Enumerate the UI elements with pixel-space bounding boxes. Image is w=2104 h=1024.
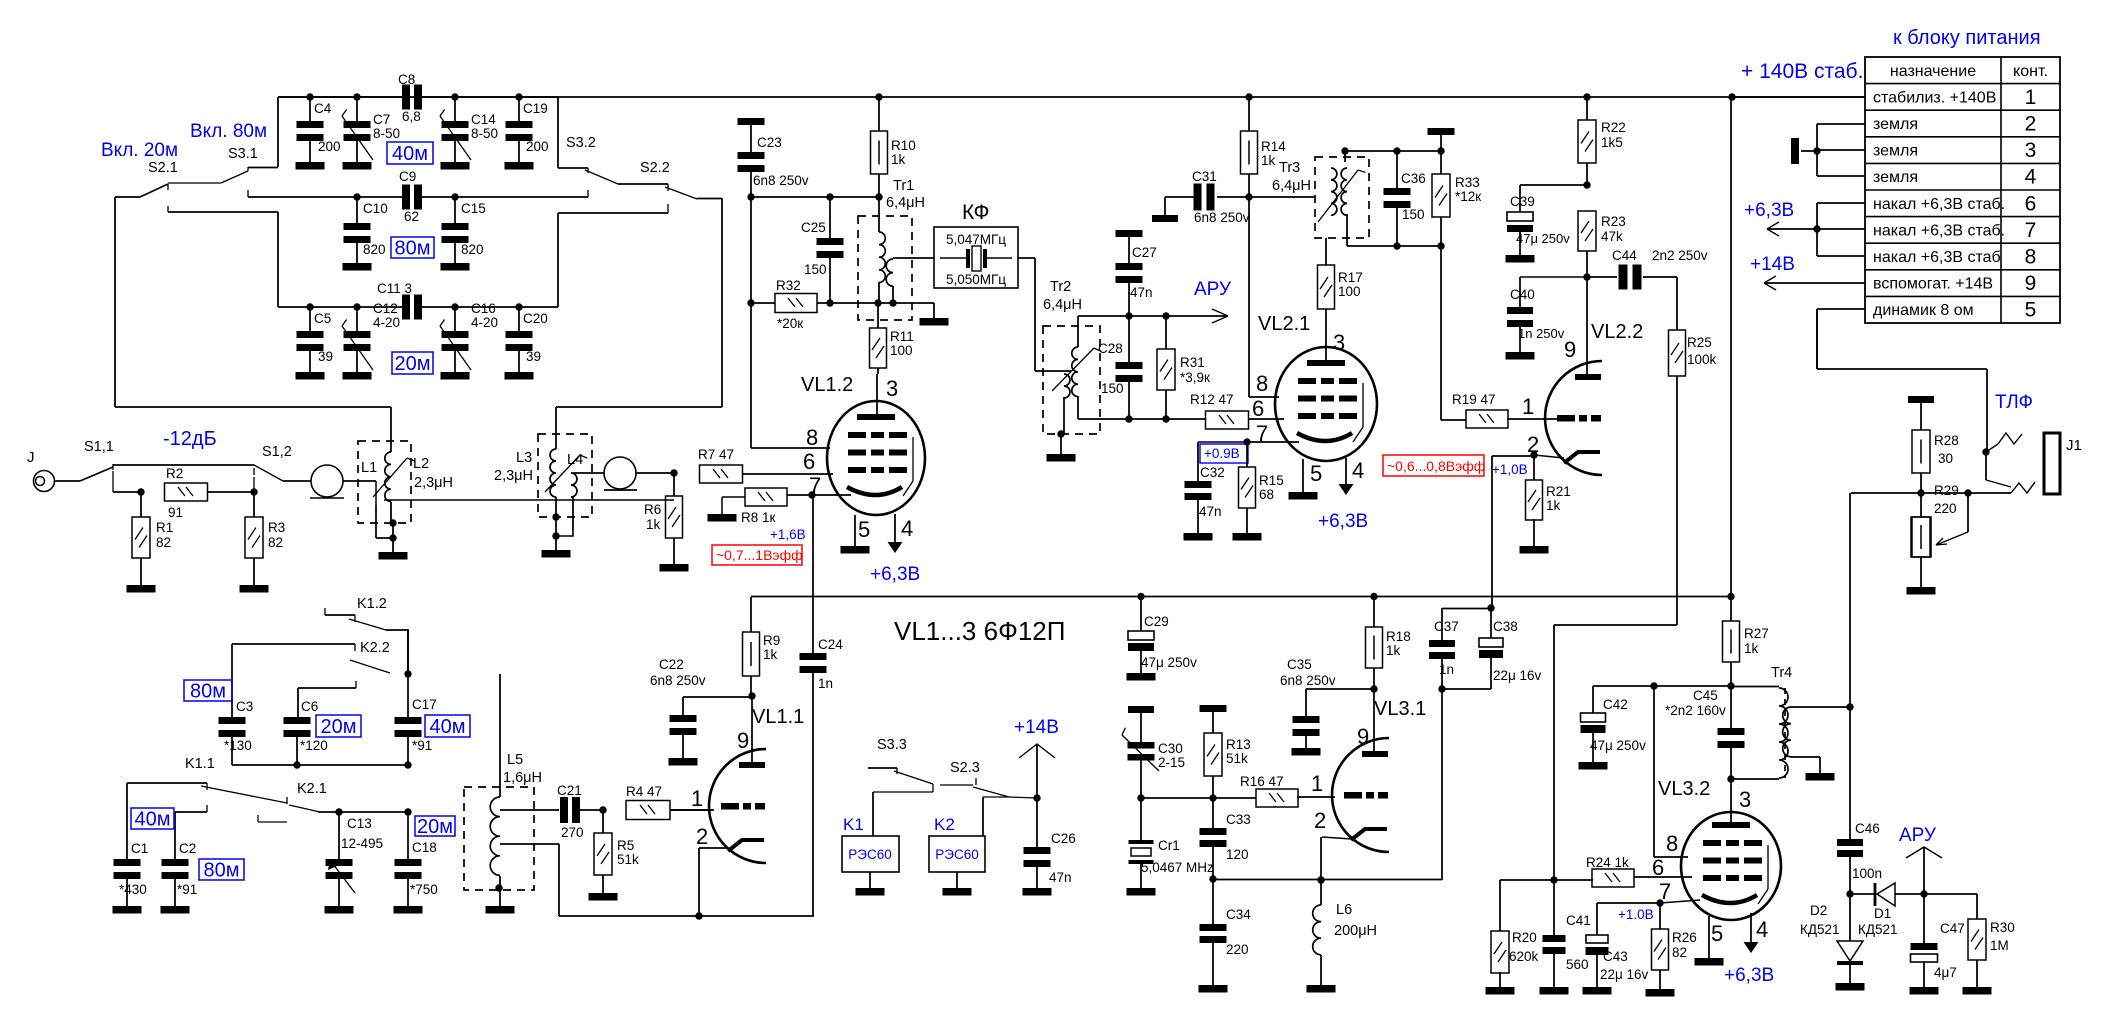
svg-text:L4: L4 — [567, 452, 583, 468]
svg-text:4: 4 — [1756, 917, 1768, 942]
svg-text:R11: R11 — [890, 329, 914, 344]
svg-text:РЭС60: РЭС60 — [848, 847, 891, 862]
svg-text:C43: C43 — [1603, 949, 1628, 964]
svg-text:9: 9 — [1357, 724, 1369, 749]
svg-text:*3,9к: *3,9к — [1180, 370, 1210, 385]
svg-text:R3: R3 — [268, 520, 285, 535]
svg-text:8-50: 8-50 — [471, 126, 498, 141]
svg-text:РЭС60: РЭС60 — [935, 847, 978, 862]
svg-text:C47: C47 — [1940, 921, 1965, 936]
svg-text:4: 4 — [2025, 166, 2037, 189]
svg-text:820: 820 — [461, 242, 484, 257]
svg-text:Вкл. 80м: Вкл. 80м — [190, 121, 267, 142]
svg-text:R32: R32 — [776, 278, 801, 293]
svg-text:5,0467 MHz: 5,0467 MHz — [1141, 860, 1214, 875]
svg-text:150: 150 — [1402, 207, 1425, 222]
svg-text:Tr3: Tr3 — [1279, 160, 1300, 176]
svg-text:накал +6,3В стаб: накал +6,3В стаб — [1873, 249, 2001, 266]
svg-text:R13: R13 — [1226, 737, 1251, 752]
svg-text:S3.1: S3.1 — [228, 146, 258, 162]
svg-text:*750: *750 — [410, 882, 438, 897]
svg-text:2: 2 — [1314, 808, 1326, 833]
svg-text:R30: R30 — [1990, 920, 2015, 935]
svg-text:АРУ: АРУ — [1194, 279, 1232, 300]
svg-text:1: 1 — [2025, 86, 2037, 109]
svg-text:47μ 250v: 47μ 250v — [1590, 738, 1646, 753]
svg-text:C12: C12 — [373, 301, 398, 316]
svg-text:8: 8 — [1666, 831, 1678, 856]
svg-text:8: 8 — [2025, 246, 2037, 269]
svg-text:6: 6 — [803, 449, 815, 474]
svg-text:+6,3В: +6,3В — [1744, 200, 1794, 221]
svg-text:200: 200 — [318, 139, 341, 154]
svg-text:150: 150 — [1101, 381, 1124, 396]
svg-text:стабилиз. +140В: стабилиз. +140В — [1873, 89, 1996, 106]
svg-text:220: 220 — [1226, 942, 1249, 957]
svg-text:R8 1к: R8 1к — [741, 510, 776, 525]
svg-text:C5: C5 — [314, 311, 331, 326]
svg-text:9: 9 — [1564, 337, 1576, 362]
svg-text:VL2.1: VL2.1 — [1258, 313, 1310, 335]
svg-text:40м: 40м — [135, 809, 171, 831]
svg-text:1M: 1M — [1990, 938, 2009, 953]
svg-text:C44: C44 — [1612, 248, 1637, 263]
svg-text:39: 39 — [526, 349, 541, 364]
svg-text:6n8 250v: 6n8 250v — [1194, 210, 1250, 225]
svg-text:+1.0В: +1.0В — [1618, 907, 1654, 922]
svg-text:R5: R5 — [617, 838, 634, 853]
svg-text:1k: 1k — [1261, 153, 1276, 168]
svg-text:КД521: КД521 — [1800, 922, 1840, 937]
svg-text:82: 82 — [268, 535, 283, 550]
svg-text:C18: C18 — [412, 840, 437, 855]
svg-text:АРУ: АРУ — [1899, 825, 1937, 846]
svg-text:ТЛФ: ТЛФ — [1995, 392, 2033, 413]
svg-text:J: J — [27, 449, 35, 466]
svg-text:47μ 250v: 47μ 250v — [1141, 655, 1197, 670]
svg-text:вспомогат. +14В: вспомогат. +14В — [1873, 276, 1993, 293]
svg-text:VL1.2: VL1.2 — [801, 374, 853, 396]
svg-text:C46: C46 — [1855, 821, 1880, 836]
svg-text:C4: C4 — [314, 101, 332, 116]
svg-text:назначение: назначение — [1890, 63, 1976, 80]
svg-text:8: 8 — [1256, 371, 1268, 396]
svg-text:S3.3: S3.3 — [877, 737, 907, 753]
svg-text:R26: R26 — [1672, 930, 1697, 945]
svg-text:8-50: 8-50 — [373, 126, 400, 141]
svg-text:4-20: 4-20 — [471, 315, 498, 330]
svg-text:VL3.1: VL3.1 — [1374, 698, 1426, 720]
svg-text:R1: R1 — [156, 520, 173, 535]
svg-text:*20к: *20к — [777, 316, 803, 331]
svg-text:2: 2 — [696, 824, 708, 849]
svg-text:Tr1: Tr1 — [893, 178, 914, 194]
svg-text:2-15: 2-15 — [1158, 755, 1185, 770]
svg-text:C28: C28 — [1098, 341, 1123, 356]
svg-text:КД521: КД521 — [1858, 922, 1898, 937]
svg-text:C11 3: C11 3 — [377, 281, 412, 296]
svg-text:S2.3: S2.3 — [950, 760, 980, 776]
svg-text:R21: R21 — [1546, 484, 1571, 499]
svg-text:1n: 1n — [1439, 662, 1454, 677]
svg-text:C14: C14 — [471, 112, 496, 127]
svg-text:к блоку питания: к блоку питания — [1893, 27, 2041, 49]
svg-text:L5: L5 — [507, 752, 523, 768]
svg-text:C45: C45 — [1693, 688, 1718, 703]
svg-text:C29: C29 — [1144, 614, 1169, 629]
svg-text:2: 2 — [2025, 113, 2037, 136]
svg-text:C3: C3 — [236, 699, 253, 714]
svg-text:82: 82 — [156, 535, 171, 550]
svg-text:2,3μН: 2,3μН — [494, 468, 533, 484]
svg-text:40м: 40м — [430, 716, 466, 738]
svg-text:62: 62 — [404, 209, 419, 224]
svg-text:S2.1: S2.1 — [148, 160, 178, 176]
svg-text:D1: D1 — [1874, 906, 1891, 921]
svg-text:+14В: +14В — [1014, 717, 1059, 738]
svg-text:*91: *91 — [177, 882, 197, 897]
svg-text:5: 5 — [858, 517, 870, 542]
svg-text:C34: C34 — [1226, 907, 1251, 922]
svg-text:C21: C21 — [557, 783, 582, 798]
svg-text:R23: R23 — [1601, 214, 1626, 229]
svg-text:Вкл. 20м: Вкл. 20м — [101, 140, 178, 161]
svg-text:C20: C20 — [523, 311, 548, 326]
svg-text:5,050МГц: 5,050МГц — [946, 272, 1006, 287]
svg-text:5: 5 — [1310, 461, 1322, 486]
svg-text:накал +6,3В стаб.: накал +6,3В стаб. — [1873, 222, 2005, 239]
svg-text:+14В: +14В — [1750, 254, 1795, 275]
svg-text:5: 5 — [1711, 921, 1723, 946]
svg-text:C38: C38 — [1493, 619, 1518, 634]
svg-text:C19: C19 — [523, 101, 548, 116]
svg-text:1: 1 — [691, 786, 703, 811]
svg-text:R14: R14 — [1261, 139, 1286, 154]
svg-text:K2.2: K2.2 — [360, 640, 390, 656]
svg-text:C25: C25 — [801, 220, 826, 235]
svg-text:земля: земля — [1873, 116, 1918, 133]
svg-text:22μ 16v: 22μ 16v — [1493, 668, 1542, 683]
svg-text:VL3.2: VL3.2 — [1658, 778, 1710, 800]
svg-text:C2: C2 — [179, 841, 196, 856]
svg-text:6n8 250v: 6n8 250v — [650, 673, 706, 688]
svg-text:L6: L6 — [1336, 902, 1352, 918]
svg-text:6,4μН: 6,4μН — [886, 195, 925, 211]
svg-text:C24: C24 — [818, 637, 843, 652]
svg-text:620k: 620k — [1509, 949, 1539, 964]
svg-text:270: 270 — [561, 825, 584, 840]
svg-text:C26: C26 — [1051, 831, 1076, 846]
svg-text:K2: K2 — [934, 815, 955, 834]
svg-text:C6: C6 — [301, 699, 318, 714]
svg-text:*12к: *12к — [1455, 189, 1481, 204]
svg-text:200μН: 200μН — [1334, 923, 1377, 939]
svg-text:C41: C41 — [1566, 913, 1591, 928]
svg-text:4: 4 — [901, 516, 913, 541]
svg-text:C31: C31 — [1192, 169, 1217, 184]
svg-text:220: 220 — [1934, 501, 1957, 516]
svg-text:R17: R17 — [1338, 270, 1363, 285]
svg-text:+6,3В: +6,3В — [870, 564, 920, 585]
svg-text:J1: J1 — [2066, 437, 2082, 454]
svg-text:2,3μН: 2,3μН — [414, 475, 453, 491]
svg-text:3: 3 — [886, 376, 898, 401]
svg-text:*2n2 160v: *2n2 160v — [1665, 703, 1726, 718]
svg-text:20м: 20м — [395, 353, 431, 375]
svg-text:100k: 100k — [1687, 352, 1717, 367]
svg-text:9: 9 — [2025, 272, 2037, 295]
svg-text:C30: C30 — [1158, 741, 1183, 756]
svg-text:R29: R29 — [1934, 483, 1959, 498]
svg-text:20м: 20м — [417, 816, 453, 838]
svg-text:C8: C8 — [398, 72, 415, 87]
svg-text:C27: C27 — [1132, 245, 1157, 260]
svg-text:91: 91 — [168, 505, 183, 520]
svg-text:4μ7: 4μ7 — [1934, 965, 1957, 980]
svg-text:C16: C16 — [471, 301, 496, 316]
svg-text:R7 47: R7 47 — [698, 447, 734, 462]
svg-text:C37: C37 — [1434, 619, 1459, 634]
svg-text:*430: *430 — [119, 882, 147, 897]
svg-text:K2.1: K2.1 — [297, 781, 327, 797]
svg-text:+1,6В: +1,6В — [770, 527, 806, 542]
svg-text:C33: C33 — [1226, 812, 1251, 827]
svg-text:Cr1: Cr1 — [1158, 838, 1180, 853]
svg-text:C39: C39 — [1510, 194, 1535, 209]
svg-text:*91: *91 — [412, 738, 432, 753]
svg-text:6,4μН: 6,4μН — [1272, 178, 1311, 194]
svg-text:820: 820 — [363, 242, 386, 257]
svg-text:1k5: 1k5 — [1601, 135, 1623, 150]
svg-text:47k: 47k — [1601, 229, 1623, 244]
svg-text:C15: C15 — [461, 201, 486, 216]
svg-text:22μ 16v: 22μ 16v — [1600, 967, 1649, 982]
svg-text:47n: 47n — [1199, 504, 1222, 519]
svg-text:динамик 8 ом: динамик 8 ом — [1873, 302, 1974, 319]
svg-text:51k: 51k — [1226, 751, 1248, 766]
svg-text:R15: R15 — [1259, 473, 1284, 488]
svg-text:1k: 1k — [891, 152, 906, 167]
svg-text:C22: C22 — [659, 657, 684, 672]
svg-text:R9: R9 — [763, 633, 780, 648]
svg-text:R2: R2 — [166, 466, 183, 481]
svg-text:3: 3 — [1739, 787, 1751, 812]
svg-text:6: 6 — [2025, 192, 2037, 215]
svg-text:1k: 1k — [1386, 643, 1401, 658]
svg-text:S2.2: S2.2 — [640, 160, 670, 176]
svg-text:1k: 1k — [1744, 641, 1759, 656]
svg-text:40м: 40м — [392, 143, 428, 165]
svg-text:K1: K1 — [843, 815, 864, 834]
svg-text:6n8 250v: 6n8 250v — [753, 173, 809, 188]
svg-text:1k: 1k — [1546, 498, 1561, 513]
svg-text:+1,0В: +1,0В — [1492, 462, 1528, 477]
svg-text:R12 47: R12 47 — [1190, 392, 1234, 407]
svg-text:82: 82 — [1672, 945, 1687, 960]
svg-text:1: 1 — [1311, 771, 1323, 796]
svg-text:D2: D2 — [1810, 903, 1827, 918]
svg-text:80м: 80м — [204, 860, 240, 882]
svg-text:1k: 1k — [763, 647, 778, 662]
svg-text:68: 68 — [1259, 487, 1274, 502]
svg-text:R33: R33 — [1455, 175, 1480, 190]
svg-text:R18: R18 — [1386, 629, 1411, 644]
svg-text:1: 1 — [1522, 394, 1534, 419]
svg-text:150: 150 — [804, 262, 827, 277]
svg-text:S1,2: S1,2 — [262, 444, 292, 460]
svg-text:1n 250v: 1n 250v — [1518, 326, 1565, 341]
svg-text:C36: C36 — [1401, 171, 1426, 186]
svg-text:1,6μН: 1,6μН — [503, 770, 542, 786]
svg-text:конт.: конт. — [2013, 63, 2048, 80]
svg-text:C17: C17 — [412, 697, 437, 712]
svg-text:6: 6 — [1252, 396, 1264, 421]
svg-text:Tr2: Tr2 — [1050, 279, 1071, 295]
svg-text:4-20: 4-20 — [373, 315, 400, 330]
svg-text:R20: R20 — [1512, 930, 1537, 945]
svg-text:L3: L3 — [516, 450, 532, 466]
svg-text:100n: 100n — [1852, 866, 1882, 881]
svg-text:80м: 80м — [395, 238, 431, 260]
svg-text:560: 560 — [1566, 957, 1589, 972]
svg-text:C23: C23 — [757, 135, 782, 150]
svg-text:1n: 1n — [818, 676, 833, 691]
svg-text:R16 47: R16 47 — [1240, 774, 1284, 789]
svg-text:30: 30 — [1938, 451, 1953, 466]
svg-text:100: 100 — [890, 343, 913, 358]
svg-text:6n8 250v: 6n8 250v — [1280, 673, 1336, 688]
svg-text:R4 47: R4 47 — [626, 784, 662, 799]
svg-text:20м: 20м — [321, 716, 357, 738]
svg-text:47μ 250v: 47μ 250v — [1516, 231, 1570, 246]
svg-text:100: 100 — [1338, 284, 1361, 299]
svg-text:3: 3 — [1333, 330, 1345, 355]
svg-text:4: 4 — [1352, 458, 1364, 483]
svg-text:КФ: КФ — [962, 201, 989, 224]
svg-text:9: 9 — [737, 728, 749, 753]
svg-text:Tr4: Tr4 — [1771, 665, 1792, 681]
svg-text:*120: *120 — [300, 738, 328, 753]
svg-text:C32: C32 — [1200, 465, 1225, 480]
svg-text:*130: *130 — [224, 738, 252, 753]
svg-text:7: 7 — [2025, 219, 2037, 242]
svg-text:VL1.1: VL1.1 — [752, 706, 804, 728]
svg-text:+6,3В: +6,3В — [1724, 965, 1774, 986]
svg-text:120: 120 — [1226, 847, 1249, 862]
svg-text:R27: R27 — [1744, 626, 1769, 641]
svg-text:C13: C13 — [347, 816, 372, 831]
svg-text:C42: C42 — [1603, 697, 1628, 712]
svg-text:R24 1k: R24 1k — [1586, 855, 1629, 870]
svg-text:R10: R10 — [891, 138, 916, 153]
svg-text:C40: C40 — [1510, 287, 1535, 302]
svg-text:~0,7...1Вэфф: ~0,7...1Вэфф — [716, 547, 803, 563]
svg-text:39: 39 — [318, 349, 333, 364]
svg-text:K1.1: K1.1 — [185, 756, 215, 772]
svg-text:S1,1: S1,1 — [84, 439, 114, 455]
svg-text:+0.9В: +0.9В — [1204, 446, 1240, 461]
svg-text:R19 47: R19 47 — [1452, 392, 1496, 407]
svg-text:6,8: 6,8 — [402, 109, 421, 124]
svg-text:5: 5 — [2025, 299, 2037, 322]
svg-text:~0,6...0,8Вэфф: ~0,6...0,8Вэфф — [1387, 458, 1485, 474]
svg-text:6,4μН: 6,4μН — [1043, 297, 1082, 313]
svg-text:земля: земля — [1873, 169, 1918, 186]
svg-text:1k: 1k — [646, 517, 661, 532]
svg-text:R22: R22 — [1601, 120, 1626, 135]
svg-text:47n: 47n — [1049, 870, 1072, 885]
svg-text:5,047МГц: 5,047МГц — [946, 232, 1006, 247]
svg-text:200: 200 — [526, 139, 549, 154]
svg-text:земля: земля — [1873, 143, 1918, 160]
svg-text:C9: C9 — [399, 169, 416, 184]
svg-text:+6,3В: +6,3В — [1318, 511, 1368, 532]
svg-text:R28: R28 — [1934, 433, 1959, 448]
svg-text:S3.2: S3.2 — [566, 135, 596, 151]
svg-text:12-495: 12-495 — [341, 836, 383, 851]
svg-text:+ 140В стаб.: + 140В стаб. — [1741, 60, 1863, 83]
svg-text:-12дБ: -12дБ — [163, 428, 217, 450]
svg-text:47n: 47n — [1130, 285, 1153, 300]
svg-text:R6: R6 — [644, 502, 661, 517]
svg-text:51k: 51k — [617, 852, 639, 867]
svg-text:L1: L1 — [361, 460, 377, 476]
svg-text:80м: 80м — [190, 681, 226, 703]
svg-text:C10: C10 — [363, 201, 388, 216]
svg-text:2n2 250v: 2n2 250v — [1652, 248, 1708, 263]
svg-text:VL1...3 6Ф12П: VL1...3 6Ф12П — [894, 616, 1065, 646]
svg-text:накал +6,3В стаб.: накал +6,3В стаб. — [1873, 196, 2005, 213]
svg-text:K1.2: K1.2 — [357, 596, 387, 612]
svg-text:C35: C35 — [1287, 657, 1312, 672]
svg-text:VL2.2: VL2.2 — [1591, 321, 1643, 343]
svg-text:C7: C7 — [373, 112, 390, 127]
svg-text:C1: C1 — [131, 841, 148, 856]
svg-text:L2: L2 — [413, 456, 429, 472]
svg-text:8: 8 — [806, 425, 818, 450]
svg-text:R25: R25 — [1687, 335, 1712, 350]
svg-text:R31: R31 — [1180, 355, 1205, 370]
svg-text:3: 3 — [2025, 139, 2037, 162]
